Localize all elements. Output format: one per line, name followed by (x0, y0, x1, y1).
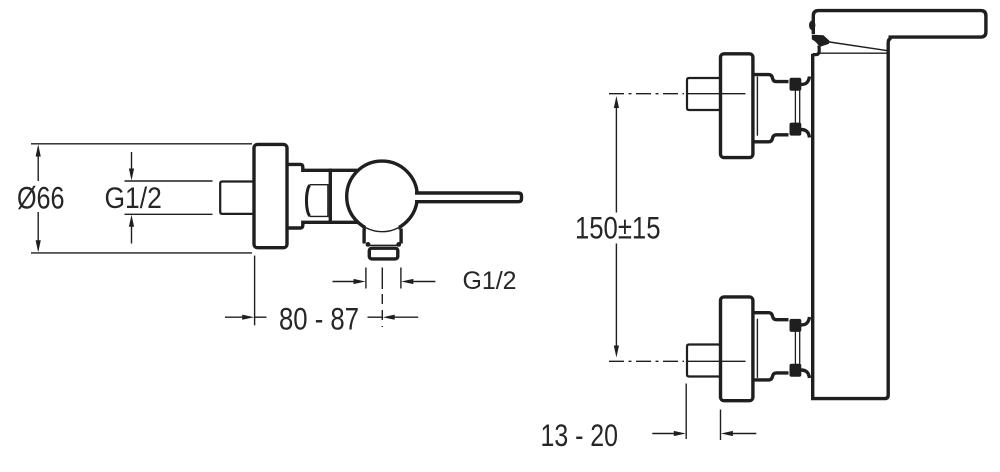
dimension G1/2 outlet left extension line (365, 268, 367, 289)
dimension 80-87 short line after tick (255, 316, 267, 318)
dimension G1/2 inlet bottom extension line (125, 213, 213, 215)
dimension Ø66 top extension line (31, 143, 252, 145)
dimension G1/2 outlet right arrow (points left) (412, 281, 435, 283)
svg-text:80 - 87: 80 - 87 (279, 301, 359, 337)
knob arc thin section over spout (366, 225, 399, 236)
handle lever (right view) (813, 11, 986, 37)
handle lever (left view) (415, 193, 522, 202)
svg-text:Ø66: Ø66 (17, 180, 65, 216)
neck corner blob left (366, 242, 371, 247)
dimension Ø66 arrowhead up (36, 145, 41, 157)
top supply centerline solid part through union (686, 93, 746, 95)
wall supply stub (right view top) (687, 78, 720, 110)
dimension 13-20 extension line at flange face (720, 410, 722, 441)
neck corner blob right (396, 242, 401, 247)
union reducer bottom profile (753, 135, 789, 142)
dimension 80-87 line segment before centerline (368, 316, 383, 318)
dome shoulder S-curve (813, 46, 819, 55)
dimension 80-87 right arrow (points left) (394, 316, 418, 318)
fillet to body bottom (801, 130, 810, 138)
dome diagonal thin line (830, 42, 889, 51)
union nut upper (790, 78, 802, 91)
svg-text:13 - 20: 13 - 20 (541, 417, 619, 453)
body hub lower profile (287, 222, 358, 228)
dome base thin line (818, 52, 888, 54)
outlet centre line (dashed) (381, 268, 383, 290)
union pipe thin line right (799, 90, 801, 126)
spout neck right side (399, 229, 402, 244)
dimension 13-20 extension line at stub end (685, 384, 687, 440)
bottom supply centerline (dash-dot) (609, 360, 684, 362)
cartridge inner cylinder elliptical end (306, 185, 310, 216)
bottom connection group (mirror of top) (687, 297, 810, 401)
dimension 13-20 left arrow (points right) (652, 433, 675, 435)
wall escutcheon flange (left view) (254, 144, 287, 247)
union nut lower (790, 123, 802, 136)
dimension Ø66 bottom extension line (31, 252, 252, 254)
bottom supply centerline solid part through union (686, 360, 746, 362)
dimension G1/2 inlet upper arrow (points down) (131, 152, 133, 170)
lever pivot clip bump (809, 21, 815, 31)
dimension G1/2 outlet left arrow (points right) (333, 281, 356, 283)
dimension 150±15 arrowhead up (614, 96, 619, 108)
control knob circle (347, 161, 418, 232)
fillet to body top (801, 77, 810, 85)
svg-text:G1/2: G1/2 (105, 182, 162, 215)
svg-text:150±15: 150±15 (575, 210, 661, 246)
dimension 150±15 vertical line upper segment (615, 106, 617, 213)
escutcheon flange (right view top) (721, 54, 753, 158)
union pipe thin line left (794, 90, 796, 126)
valve body left edge (329, 169, 332, 224)
dimension G1/2 inlet top extension line (125, 180, 213, 182)
mixer body (right view) (811, 38, 892, 398)
wall supply stub (left view) (220, 182, 254, 214)
svg-text:G1/2: G1/2 (463, 267, 517, 295)
dimension 80-87 extension line from flange (254, 256, 256, 326)
cartridge housing inner cylinder (thin) (310, 185, 328, 217)
dimension 13-20 right arrow (points left) (732, 433, 756, 435)
spout neck left side (362, 229, 365, 244)
aerator top thin line (370, 244, 397, 246)
dimension Ø66 vertical dimension line (37, 147, 39, 181)
flange inner thin edge (756, 77, 758, 136)
dimension 150±15 arrowhead down (614, 346, 619, 358)
dimension G1/2 outlet right extension line (400, 268, 402, 289)
dimension 150±15 vertical line lower segment (615, 244, 617, 347)
aerator outlet body (369, 248, 398, 259)
body hub upper profile (287, 164, 358, 170)
top connection group (687, 54, 810, 158)
union reducer top profile (753, 75, 789, 82)
dimension G1/2 inlet lower arrow (points up) (131, 225, 133, 244)
dimension 80-87 left arrow (points right) (225, 316, 243, 318)
dimension Ø66 arrowhead down (36, 240, 41, 252)
top supply centerline (dash-dot) (609, 93, 684, 95)
lever hub cap blob (812, 35, 830, 47)
